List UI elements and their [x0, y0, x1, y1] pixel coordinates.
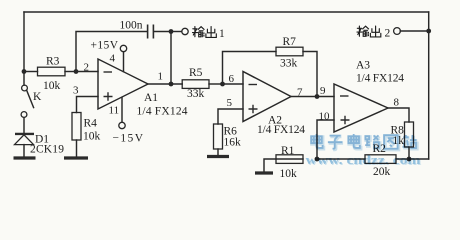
op-amp A2 — [243, 72, 291, 122]
svg-text:1/4 FX124: 1/4 FX124 — [356, 73, 404, 85]
resistor R6 — [214, 124, 223, 155]
plus sign A3 pin10 — [341, 116, 350, 125]
wire: right vertical from top rail down to bottom rail — [428, 12, 430, 159]
node: cap/output junction — [169, 29, 174, 34]
op-amp A3 — [334, 84, 388, 132]
svg-text:8: 8 — [394, 97, 400, 109]
svg-text:K: K — [33, 91, 42, 103]
svg-text:10k: 10k — [83, 131, 101, 143]
label 输出 2 (output 2 text) — [357, 26, 381, 37]
pin10 wire and branch down — [317, 120, 334, 159]
wire: A3 output down to R8 — [388, 108, 409, 122]
resistor R4 — [72, 113, 81, 157]
svg-text:2: 2 — [385, 28, 391, 40]
svg-text:R7: R7 — [283, 36, 297, 48]
svg-text:4: 4 — [110, 53, 116, 65]
ground (R4) — [64, 156, 88, 159]
terminal 输出1 circle — [182, 28, 188, 34]
minus sign A2 pin6 — [249, 84, 258, 86]
svg-text:5: 5 — [227, 97, 233, 109]
svg-text:+15V: +15V — [91, 40, 119, 52]
svg-text:9: 9 — [320, 85, 326, 97]
svg-text:R3: R3 — [46, 56, 60, 68]
pin3 wire — [77, 97, 99, 113]
wire: A1 output to R5 — [148, 83, 182, 85]
svg-text:R1: R1 — [281, 145, 295, 157]
svg-text:2: 2 — [84, 62, 90, 74]
svg-text:3: 3 — [73, 85, 79, 97]
wire: R7 feedback branch — [223, 52, 318, 97]
svg-text:2CK19: 2CK19 — [30, 144, 64, 156]
svg-text:A1: A1 — [144, 92, 158, 104]
bottom rail wire — [276, 158, 429, 160]
svg-text:1/4 FX124: 1/4 FX124 — [257, 124, 305, 136]
resistor R2 — [365, 155, 396, 164]
diode D1 (cathode bar + triangle) — [15, 134, 35, 156]
resistor R8 — [405, 122, 414, 159]
svg-text:www. cndzz. com: www. cndzz. com — [306, 153, 422, 167]
wire: A2 output to A3 pin9 — [291, 96, 334, 98]
svg-text:1: 1 — [219, 28, 225, 40]
svg-text:1/4 FX124: 1/4 FX124 — [137, 106, 188, 118]
resistor R1 — [264, 155, 303, 172]
svg-text:R5: R5 — [189, 67, 203, 79]
capacitor C 100n — [148, 25, 169, 39]
plus sign A2 pin5 — [249, 105, 258, 114]
ground (R6) — [207, 155, 229, 158]
node: R8 bottom junction — [407, 157, 412, 162]
wire: switch to diode D1 — [23, 118, 25, 134]
wire: capacitor branch up from inverting node — [76, 32, 147, 72]
resistor R7 — [276, 47, 303, 56]
node: R3 input junction — [22, 69, 27, 74]
node: A1 output — [169, 82, 174, 87]
wire: top feedback rail — [24, 11, 429, 13]
wire: junction to output terminal 2 — [400, 30, 429, 32]
svg-text:1: 1 — [158, 71, 164, 83]
svg-text:A3: A3 — [356, 60, 370, 72]
svg-text:10k: 10k — [43, 80, 61, 92]
svg-text:6: 6 — [229, 73, 235, 85]
node: A1 inverting input — [74, 69, 79, 74]
minus sign A3 pin9 — [340, 95, 349, 97]
resistor R5 — [182, 80, 222, 89]
-15V supply terminal — [119, 97, 125, 129]
svg-text:33k: 33k — [187, 88, 205, 100]
svg-text:33k: 33k — [280, 58, 298, 70]
svg-text:100n: 100n — [120, 20, 143, 32]
watermark www.cndzz.com — [306, 153, 423, 168]
label 输出 1 (output 1 text) — [193, 27, 217, 38]
svg-text:16k: 16k — [224, 137, 242, 149]
wire: node to pin6 — [223, 83, 244, 85]
resistor R3 — [24, 67, 76, 76]
node: pin9 junction — [315, 94, 320, 99]
wire: node down to switch K — [23, 72, 25, 86]
watermark 电子电路图站 — [311, 134, 417, 150]
svg-text:10k: 10k — [280, 168, 298, 180]
+15V supply terminal — [120, 45, 126, 71]
wire: junction to output terminal 1 — [171, 31, 182, 33]
node: output2 junction — [426, 29, 431, 34]
wire: left vertical from top rail to R3 input node — [23, 12, 25, 72]
switch K — [21, 85, 33, 117]
op-amp A1 — [98, 59, 148, 109]
ground (R1) — [255, 171, 273, 174]
plus sign A1 pin3 — [104, 92, 113, 101]
svg-text:11: 11 — [109, 105, 120, 117]
svg-text:−15V: −15V — [113, 133, 144, 145]
minus sign A1 pin2 — [104, 71, 113, 73]
svg-text:R4: R4 — [84, 118, 98, 130]
svg-text:10: 10 — [319, 111, 331, 123]
ground (D1) — [14, 156, 36, 159]
wire: node to pin2 — [76, 71, 98, 73]
wire: junction down to A1 output — [170, 32, 172, 85]
pin5 wire — [218, 109, 243, 124]
node: pin10 bottom junction — [315, 157, 320, 162]
node: A2 inverting input — [220, 82, 225, 87]
terminal 输出2 circle — [394, 28, 401, 35]
